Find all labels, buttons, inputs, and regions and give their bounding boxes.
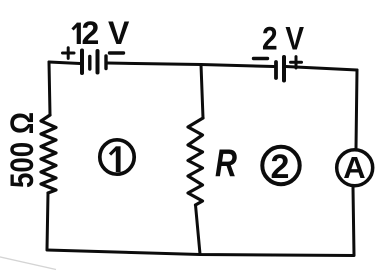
- svg-text:500 Ω: 500 Ω: [4, 112, 40, 188]
- svg-text:2: 2: [82, 15, 100, 51]
- svg-text:A: A: [343, 150, 365, 185]
- svg-text:V: V: [108, 15, 130, 51]
- svg-text:2: 2: [271, 148, 290, 186]
- svg-text:2 V: 2 V: [262, 21, 305, 57]
- svg-text:R: R: [215, 141, 238, 184]
